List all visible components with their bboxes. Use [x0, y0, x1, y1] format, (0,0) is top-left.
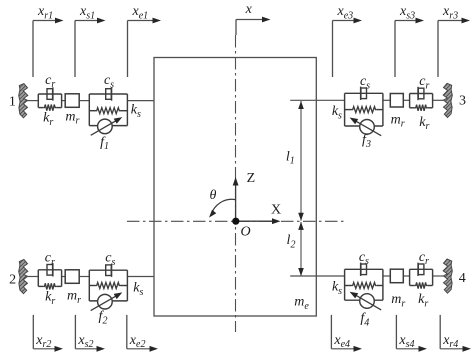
svg-text:O: O	[240, 225, 250, 240]
svg-text:x: x	[245, 2, 253, 17]
svg-text:4: 4	[459, 271, 466, 286]
svg-text:Z: Z	[247, 171, 256, 186]
svg-text:1: 1	[9, 95, 16, 110]
svg-text:X: X	[271, 203, 281, 218]
svg-text:2: 2	[9, 273, 16, 288]
svg-text:θ: θ	[210, 188, 217, 203]
svg-text:3: 3	[459, 94, 466, 109]
